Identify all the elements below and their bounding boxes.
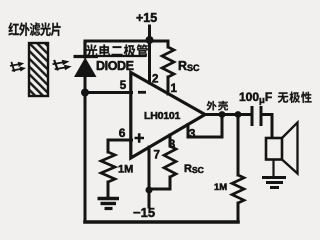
svg-text:8: 8 [169,139,176,151]
svg-text:RSC: RSC [178,59,200,73]
svg-text:3: 3 [189,129,195,141]
svg-text:LH0101: LH0101 [144,110,181,122]
svg-text:+15: +15 [136,11,157,25]
svg-text:−15: −15 [133,205,155,220]
svg-text:DIODE: DIODE [96,59,134,73]
svg-text:5: 5 [120,80,127,92]
svg-text:2: 2 [152,74,158,86]
svg-text:1: 1 [171,83,178,95]
svg-text:1M: 1M [214,182,227,193]
svg-text:6: 6 [119,126,126,140]
svg-text:100μF: 100μF [239,90,272,106]
svg-text:RSC: RSC [184,163,204,175]
svg-text:7: 7 [154,150,160,162]
svg-text:1M: 1M [118,164,133,176]
